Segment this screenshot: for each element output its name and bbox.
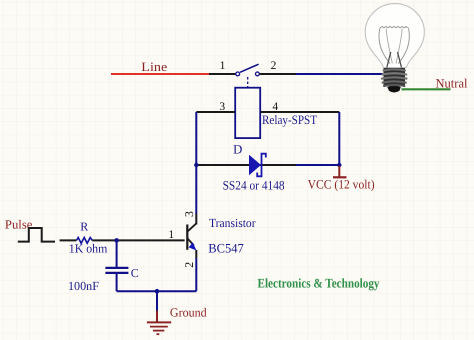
svg-text:SS24 or 4148: SS24 or 4148: [223, 179, 285, 193]
svg-text:2: 2: [271, 60, 277, 72]
svg-text:VCC (12 volt): VCC (12 volt): [308, 177, 375, 191]
svg-text:3: 3: [219, 101, 225, 113]
svg-text:Relay-SPST: Relay-SPST: [262, 113, 317, 127]
svg-text:1: 1: [168, 229, 174, 241]
svg-text:3: 3: [182, 211, 196, 217]
svg-text:Transistor: Transistor: [209, 216, 256, 230]
svg-text:C: C: [131, 266, 139, 280]
svg-text:R: R: [80, 220, 88, 234]
svg-text:1: 1: [220, 60, 226, 72]
svg-text:100nF: 100nF: [68, 279, 99, 293]
svg-text:1K ohm: 1K ohm: [69, 242, 108, 256]
svg-text:Line: Line: [141, 60, 167, 74]
svg-text:2: 2: [182, 262, 196, 268]
svg-text:Ground: Ground: [170, 306, 208, 320]
svg-text:Nutral: Nutral: [436, 76, 468, 90]
svg-text:D: D: [233, 142, 242, 156]
svg-text:Electronics & Technology: Electronics & Technology: [258, 276, 380, 291]
svg-text:BC547: BC547: [208, 241, 244, 256]
svg-text:4: 4: [272, 101, 278, 113]
